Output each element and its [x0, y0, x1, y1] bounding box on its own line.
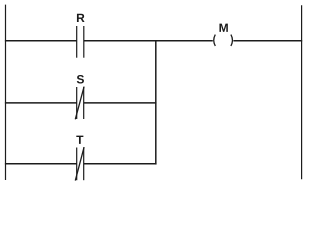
- wire rung2 left segment: [5, 102, 77, 104]
- label T: [76, 136, 83, 144]
- wire rung1 middle segment: [84, 40, 213, 42]
- label R: [77, 14, 85, 22]
- left power rail: [5, 5, 7, 180]
- right power rail: [301, 5, 303, 179]
- label M: [219, 24, 227, 32]
- wire rung1 left segment: [5, 40, 77, 42]
- label S: [77, 75, 84, 84]
- wire branch vertical: [155, 40, 157, 164]
- wire rung1 right segment: [233, 40, 302, 42]
- contact S (normally closed): [75, 87, 84, 120]
- contact R (normally open): [77, 26, 84, 58]
- wire rung2 right segment: [84, 102, 157, 104]
- coil M: [214, 35, 233, 46]
- wire rung3 left segment: [5, 163, 77, 165]
- wire rung3 right segment: [84, 163, 157, 165]
- contact T (normally closed): [75, 147, 84, 181]
